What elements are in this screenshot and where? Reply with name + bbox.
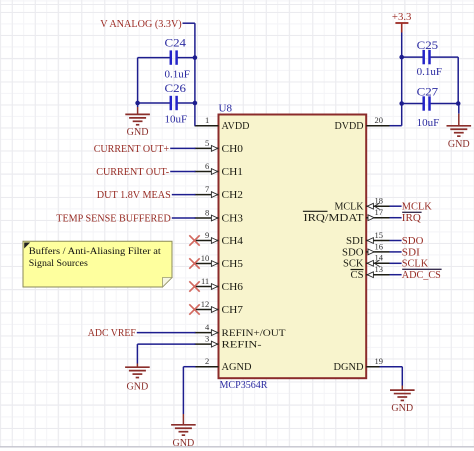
svg-text:Signal Sources: Signal Sources <box>29 258 88 269</box>
capacitor C24 <box>138 38 195 81</box>
svg-text:C27: C27 <box>417 87 439 99</box>
pin 19 (DGND) <box>334 356 390 373</box>
ground GND (REFIN-) <box>125 344 150 392</box>
overbar on CS (pin 13 name) <box>351 269 364 271</box>
pin 7 (CH2) <box>195 184 244 201</box>
node label IRQ <box>402 212 422 224</box>
svg-text:Buffers / Anti-Aliasing Filter: Buffers / Anti-Aliasing Filter at <box>29 246 161 257</box>
svg-text:+3.3: +3.3 <box>392 12 412 23</box>
node junction C27/ground <box>456 101 461 106</box>
pin 3 (REFIN-) <box>195 334 262 351</box>
svg-text:CH0: CH0 <box>222 144 244 155</box>
svg-text:4: 4 <box>205 322 210 332</box>
node label SDI <box>402 247 421 258</box>
svg-text:SCLK: SCLK <box>402 259 429 270</box>
node label ADC_CS <box>402 269 442 281</box>
svg-text:16: 16 <box>375 241 384 251</box>
svg-text:REFIN+/OUT: REFIN+/OUT <box>222 329 286 339</box>
svg-text:10uF: 10uF <box>417 117 440 129</box>
svg-text:12: 12 <box>201 299 210 309</box>
svg-text:GND: GND <box>391 403 413 414</box>
node junction AVDD/C26 <box>193 101 198 106</box>
svg-text:10uF: 10uF <box>165 114 188 126</box>
wire DGND to ground <box>380 366 403 368</box>
op-amp U8 (ADC IC body MCP3564R) <box>219 115 367 379</box>
svg-text:1: 1 <box>205 115 209 125</box>
svg-text:CURRENT OUT-: CURRENT OUT- <box>96 167 169 178</box>
no-ERC marker X on pin 9 <box>189 235 199 245</box>
svg-text:V ANALOG (3.3V): V ANALOG (3.3V) <box>100 19 182 30</box>
svg-text:IRQ: IRQ <box>402 213 421 224</box>
svg-text:DUT 1.8V MEAS: DUT 1.8V MEAS <box>97 190 171 201</box>
svg-text:TEMP SENSE BUFFERED: TEMP SENSE BUFFERED <box>56 213 171 224</box>
wire net CURRENT OUT- <box>170 171 195 173</box>
power port +3.3 <box>392 12 412 32</box>
svg-text:C24: C24 <box>165 38 187 50</box>
node junction +3.3/C27 <box>399 101 404 106</box>
svg-text:CURRENT OUT+: CURRENT OUT+ <box>94 144 170 155</box>
svg-text:7: 7 <box>205 184 209 194</box>
svg-text:GND: GND <box>127 382 149 393</box>
pin 20 (DVDD) <box>335 115 390 132</box>
svg-text:CS: CS <box>351 270 364 281</box>
no-ERC marker X on pin 12 <box>189 304 199 314</box>
svg-text:17: 17 <box>375 207 384 217</box>
svg-text:20: 20 <box>375 115 384 125</box>
capacitor C25 <box>402 40 459 78</box>
node label SCLK <box>402 259 429 270</box>
svg-text:CH5: CH5 <box>222 259 244 270</box>
svg-text:19: 19 <box>375 356 384 366</box>
wire net CURRENT OUT+ <box>170 147 195 149</box>
pin 17 (IRQ/MDAT) <box>304 207 390 224</box>
svg-text:8: 8 <box>205 207 209 217</box>
svg-text:3: 3 <box>205 334 209 344</box>
svg-text:2: 2 <box>205 356 209 366</box>
svg-text:CH3: CH3 <box>222 213 244 224</box>
svg-text:MCLK: MCLK <box>335 202 365 213</box>
node label ADC VREF <box>88 328 136 339</box>
node junction +3.3/C25 <box>399 55 404 60</box>
svg-text:MCLK: MCLK <box>402 202 432 213</box>
power port V ANALOG (3.3V) <box>100 19 182 30</box>
svg-text:CH7: CH7 <box>222 305 244 316</box>
svg-text:GND: GND <box>173 438 195 449</box>
svg-text:5: 5 <box>205 138 209 148</box>
pin 9 (CH4) <box>195 230 244 247</box>
node label DUT 1.8V MEAS <box>97 190 171 201</box>
svg-text:REFIN-: REFIN- <box>222 341 262 351</box>
pin 8 (CH3) <box>195 207 244 224</box>
pin 5 (CH0) <box>195 138 244 155</box>
svg-text:CH4: CH4 <box>222 236 244 247</box>
wire V ANALOG to AVDD rail <box>183 23 195 126</box>
wire REFIN- to ground <box>137 343 195 345</box>
svg-text:ADC_CS: ADC_CS <box>402 270 441 281</box>
wire net IRQ <box>390 217 402 219</box>
wire net TEMP SENSE BUFFERED <box>172 217 196 219</box>
pin 15 (SDI) <box>346 230 390 247</box>
svg-text:SCK: SCK <box>343 259 364 270</box>
svg-text:DGND: DGND <box>334 362 364 373</box>
svg-text:AVDD: AVDD <box>222 121 250 132</box>
svg-text:CH2: CH2 <box>222 190 244 201</box>
svg-text:6: 6 <box>205 161 209 171</box>
pin 11 (CH6) <box>195 276 244 293</box>
ground GND (AGND) <box>171 367 196 449</box>
ground GND (digital caps) <box>447 104 472 150</box>
svg-text:ADC VREF: ADC VREF <box>88 328 136 339</box>
wire AGND to ground <box>183 366 195 368</box>
pin 18 (MCLK) <box>335 196 390 213</box>
pin 10 (CH5) <box>195 253 244 270</box>
wire net ADC VREF <box>137 332 196 334</box>
node label SDO <box>402 236 424 247</box>
note: Buffers / Anti-Aliasing Filter at Signal Sources <box>23 241 172 287</box>
svg-text:DVDD: DVDD <box>335 121 364 132</box>
wire net SDO <box>390 240 402 242</box>
svg-text:AGND: AGND <box>222 362 252 373</box>
pin 4 (REFIN+/OUT) <box>195 322 286 339</box>
wire cap left rail <box>137 58 139 103</box>
wire net SCLK <box>390 262 402 264</box>
svg-text:C26: C26 <box>165 83 187 95</box>
svg-text:IRQ/MDAT: IRQ/MDAT <box>304 213 364 224</box>
svg-text:15: 15 <box>375 230 384 240</box>
svg-text:C25: C25 <box>417 40 439 52</box>
svg-text:MCP3564R: MCP3564R <box>220 380 268 391</box>
svg-text:GND: GND <box>127 127 149 138</box>
pin 6 (CH1) <box>195 161 244 178</box>
wire <box>0 446 474 448</box>
svg-text:0.1uF: 0.1uF <box>417 66 442 78</box>
overbar on IRQ (pin 17 name) <box>303 210 328 212</box>
node junction AVDD/C24 <box>193 55 198 60</box>
svg-text:SDI: SDI <box>346 236 364 247</box>
capacitor C27 <box>402 87 459 130</box>
node label CURRENT OUT- <box>96 167 169 178</box>
wire cap right rail <box>457 57 459 103</box>
svg-text:9: 9 <box>205 230 209 240</box>
wire +3.3 to DVDD <box>390 33 402 126</box>
wire net SDI <box>390 251 402 253</box>
ground GND (analog caps) <box>125 103 150 138</box>
pin 14 (SCK) <box>343 253 390 270</box>
pin 1 (AVDD) <box>195 115 250 132</box>
svg-text:18: 18 <box>375 196 384 206</box>
svg-text:0.1uF: 0.1uF <box>165 69 190 81</box>
wire net ADC_CS <box>390 274 402 276</box>
svg-text:SDI: SDI <box>402 247 421 258</box>
svg-text:SDO: SDO <box>342 247 364 258</box>
svg-text:CH1: CH1 <box>222 167 244 178</box>
pin 16 (SDO) <box>342 241 390 258</box>
node junction C26/ground <box>135 101 140 106</box>
svg-text:GND: GND <box>448 139 470 150</box>
wire net MCLK <box>390 205 402 207</box>
no-ERC marker X on pin 11 <box>189 281 199 291</box>
capacitor C26 <box>138 83 195 126</box>
svg-text:SDO: SDO <box>402 236 424 247</box>
pin 12 (CH7) <box>195 299 244 316</box>
ground GND (DGND) <box>390 367 415 414</box>
svg-text:14: 14 <box>375 253 384 263</box>
no-ERC marker X on pin 10 <box>189 258 199 268</box>
pin 2 (AGND) <box>195 356 252 373</box>
node label MCLK <box>402 202 432 213</box>
svg-text:11: 11 <box>201 276 209 286</box>
wire net DUT 1.8V MEAS <box>172 194 196 196</box>
svg-text:U8: U8 <box>219 104 233 115</box>
svg-text:10: 10 <box>201 253 210 263</box>
svg-text:13: 13 <box>375 264 384 274</box>
pin 13 (CS) <box>351 264 390 281</box>
node label CURRENT OUT+ <box>94 144 170 155</box>
svg-text:CH6: CH6 <box>222 282 244 293</box>
node label TEMP SENSE BUFFERED <box>56 213 171 224</box>
